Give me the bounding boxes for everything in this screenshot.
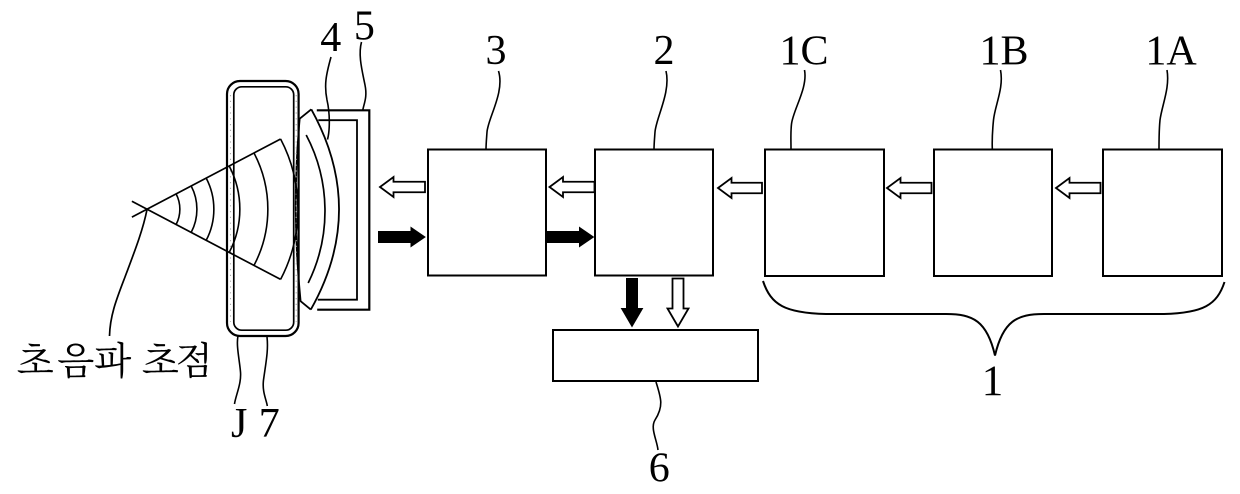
leader wavy line to 7 bbox=[263, 337, 267, 406]
white arrow left (box2 to box3) bbox=[550, 177, 595, 197]
white arrow left (1A to 1B) bbox=[1056, 178, 1101, 198]
white arrow left (1B to 1C) bbox=[887, 178, 932, 198]
wavefront arc r33 bbox=[176, 194, 180, 225]
wavefront arc r67 bbox=[206, 178, 214, 240]
black arrow right (box3 to box2) bbox=[548, 228, 594, 247]
wavefront arc r121 bbox=[254, 153, 268, 265]
white arrow left (1C to box2) bbox=[718, 178, 762, 198]
transducer capsule inner rounded rect 7 bbox=[234, 87, 294, 330]
leader wavy line to 3 bbox=[486, 71, 500, 150]
wavefront cap arc r151 bbox=[281, 139, 298, 279]
lens outer right surface bbox=[311, 109, 339, 309]
svg-text:J: J bbox=[231, 401, 247, 447]
hangul glyph 점 (jeom) bbox=[178, 341, 207, 378]
leader wavy line to 6 bbox=[653, 382, 661, 450]
box 3 bbox=[428, 150, 546, 276]
hangul glyph 초 (cho) bbox=[18, 343, 53, 373]
leader wavy line to 5 bbox=[360, 42, 366, 110]
wavefront arc inside lens bbox=[306, 135, 325, 283]
svg-text:1C: 1C bbox=[779, 29, 828, 75]
hangul glyph 초 (cho) bbox=[143, 343, 178, 373]
black arrow right (into box 3) bbox=[379, 228, 426, 247]
korean label: 초음파 초점 (ultrasonic focal point) bbox=[18, 341, 208, 378]
leader wavy line to 1C bbox=[791, 70, 805, 149]
transducer capsule outer rounded rect J bbox=[227, 81, 299, 336]
wavefront arc r50 bbox=[191, 186, 197, 232]
box 1C bbox=[765, 150, 884, 277]
leader wavy line to J bbox=[235, 336, 241, 404]
cone lower edge line bbox=[132, 201, 281, 279]
svg-text:1: 1 bbox=[982, 358, 1004, 405]
capsule wall stipple left bbox=[230, 95, 232, 322]
wavefront arc r93 bbox=[229, 166, 240, 252]
black arrow down (box2 to box6) bbox=[622, 279, 643, 327]
svg-text:5: 5 bbox=[354, 3, 375, 49]
leader wavy line to focus text bbox=[110, 210, 147, 336]
leader wavy line to 1B bbox=[992, 70, 1001, 149]
capsule wall stipple right bbox=[295, 95, 297, 322]
hangul glyph 음 (eum) bbox=[58, 344, 93, 379]
white arrow down (box2 to box6) bbox=[668, 279, 689, 327]
box 1B bbox=[934, 150, 1052, 277]
svg-text:7: 7 bbox=[259, 401, 280, 447]
white arrow left (lens to box3 feedback) bbox=[380, 177, 425, 197]
svg-text:6: 6 bbox=[649, 446, 670, 492]
brace 1 under 1C 1B 1A bbox=[763, 281, 1225, 356]
focal point X / cone upper edge line bbox=[132, 139, 281, 217]
backing block inner rectangle bbox=[318, 120, 357, 300]
leader wavy line to 1A bbox=[1159, 70, 1168, 149]
backing block outer rectangle (5) bbox=[317, 110, 370, 309]
leader wavy line to 4 bbox=[326, 57, 331, 140]
acoustic lens 4 (crescent) bbox=[296, 109, 312, 309]
svg-text:1B: 1B bbox=[979, 29, 1028, 75]
svg-text:2: 2 bbox=[654, 28, 675, 74]
hangul glyph 파 (pa) bbox=[95, 341, 131, 378]
box 1A bbox=[1103, 150, 1222, 277]
box 2 bbox=[595, 150, 713, 276]
svg-text:3: 3 bbox=[486, 28, 507, 74]
svg-text:1A: 1A bbox=[1145, 29, 1197, 75]
box 6 bbox=[553, 330, 758, 381]
leader wavy line to 2 bbox=[654, 71, 667, 150]
svg-text:4: 4 bbox=[320, 15, 341, 61]
